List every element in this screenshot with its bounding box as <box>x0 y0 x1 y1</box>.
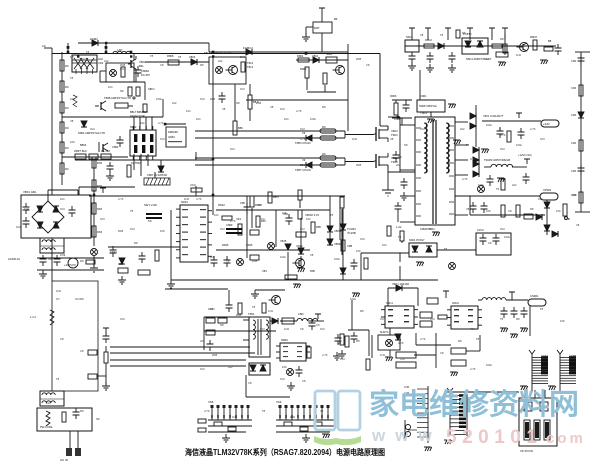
svg-text:10K: 10K <box>556 209 561 213</box>
svg-text:R86: R86 <box>310 269 315 273</box>
svg-text:KA7552: KA7552 <box>131 161 141 165</box>
svg-text:ZD8: ZD8 <box>118 229 124 233</box>
svg-text:100u: 100u <box>478 183 484 187</box>
svg-text:100u: 100u <box>486 123 492 127</box>
svg-text:B#: B# <box>334 17 338 21</box>
svg-text:222: 222 <box>104 59 109 63</box>
svg-text:222: 222 <box>460 127 465 131</box>
svg-text:R9: R9 <box>65 167 69 171</box>
svg-text:R9: R9 <box>322 125 326 129</box>
svg-text:104: 104 <box>46 401 51 405</box>
svg-text:T8: T8 <box>226 259 230 263</box>
svg-text:V8: V8 <box>70 119 74 123</box>
svg-text:V8#L: V8#L <box>139 60 146 64</box>
svg-text:VZ802 3.3V: VZ802 3.3V <box>305 213 319 217</box>
svg-text:4.7K: 4.7K <box>158 121 164 125</box>
svg-text:222: 222 <box>228 365 233 369</box>
svg-text:ZD8: ZD8 <box>356 163 362 167</box>
svg-text:222: 222 <box>172 101 177 105</box>
svg-text:TCM#1: TCM#1 <box>347 227 356 231</box>
svg-text:AC: AC <box>42 44 46 48</box>
svg-text:SW1 V130: SW1 V130 <box>144 203 157 207</box>
svg-text:V9: V9 <box>302 158 306 162</box>
svg-text:T8L6: T8L6 <box>247 65 254 69</box>
svg-text:R1K: R1K <box>470 327 475 331</box>
svg-text:R1K: R1K <box>120 67 125 71</box>
svg-text:R8: R8 <box>530 207 534 211</box>
svg-text:222: 222 <box>218 59 223 63</box>
svg-text:4.7K: 4.7K <box>462 177 468 181</box>
svg-text:R846: R846 <box>222 243 229 247</box>
svg-text:C8: C8 <box>508 209 512 213</box>
svg-text:R8: R8 <box>80 297 84 301</box>
svg-text:ZD8: ZD8 <box>236 313 242 317</box>
svg-text:C8: C8 <box>316 323 320 327</box>
svg-text:R8: R8 <box>500 37 504 41</box>
svg-text:C96: C96 <box>571 113 576 117</box>
svg-text:FGM2: FGM2 <box>90 37 98 41</box>
svg-text:T8: T8 <box>258 203 262 207</box>
svg-text:N8: N8 <box>96 417 100 421</box>
svg-text:C8: C8 <box>488 241 492 245</box>
svg-text:ZD8: ZD8 <box>356 57 362 61</box>
svg-text:10K: 10K <box>282 211 287 215</box>
svg-text:R1K: R1K <box>200 97 205 101</box>
svg-text:B8LT B#M/BLY: B8LT B#M/BLY <box>130 110 148 114</box>
svg-text:C9#1: C9#1 <box>420 94 427 98</box>
svg-text:T#B3 CHAIN: T#B3 CHAIN <box>295 141 311 145</box>
svg-text:R83: R83 <box>97 161 102 165</box>
svg-text:R1K: R1K <box>300 127 305 131</box>
svg-text:R808: R808 <box>167 54 174 58</box>
svg-text:T8#B AMPFSTGLCTD: T8#B AMPFSTGLCTD <box>104 96 131 100</box>
svg-text:222: 222 <box>140 121 145 125</box>
svg-text:V9: V9 <box>302 131 306 135</box>
svg-text:R1K: R1K <box>200 367 205 371</box>
svg-text:4.7K: 4.7K <box>420 337 426 341</box>
svg-text:R8: R8 <box>360 309 364 313</box>
svg-text:T8: T8 <box>262 409 266 413</box>
svg-text:N860: N860 <box>281 338 288 342</box>
svg-text:104: 104 <box>306 217 311 221</box>
svg-text:V8: V8 <box>420 33 424 37</box>
svg-text:N802: N802 <box>130 125 137 129</box>
svg-text:C8: C8 <box>160 63 164 67</box>
svg-text:T8L6: T8L6 <box>247 61 254 65</box>
svg-text:+12V(1.5A): +12V(1.5A) <box>518 153 532 157</box>
svg-text:R906: R906 <box>390 94 397 98</box>
svg-text:R801: R801 <box>297 54 304 58</box>
svg-text:R1K: R1K <box>380 317 385 321</box>
svg-text:+297V(5): +297V(5) <box>64 263 76 267</box>
svg-text:T8: T8 <box>330 213 334 217</box>
svg-text:www: www <box>371 426 442 445</box>
svg-text:T8: T8 <box>130 209 134 213</box>
svg-text:104: 104 <box>284 117 289 121</box>
svg-text:B8#4: B8#4 <box>80 143 87 147</box>
svg-text:C#B: C#B <box>347 244 352 248</box>
svg-text:R842: R842 <box>218 203 225 207</box>
svg-text:R8: R8 <box>356 339 360 343</box>
svg-text:104: 104 <box>382 243 387 247</box>
svg-text:1N4: 1N4 <box>210 255 215 259</box>
svg-text:V8: V8 <box>390 137 394 141</box>
svg-text:R1K: R1K <box>340 357 345 361</box>
svg-text:ZD8: ZD8 <box>212 353 218 357</box>
svg-text:XP9#2: XP9#2 <box>543 188 552 192</box>
svg-text:R1K: R1K <box>80 57 85 61</box>
svg-text:PW-FUSE: PW-FUSE <box>40 425 53 429</box>
svg-text:R8: R8 <box>80 409 84 413</box>
svg-text:N9C2: N9C2 <box>452 301 459 305</box>
svg-text:R1K: R1K <box>90 127 95 131</box>
svg-text:R8C8: R8C8 <box>530 35 537 39</box>
svg-text:10K: 10K <box>282 365 287 369</box>
svg-text:ZD8: ZD8 <box>210 97 216 101</box>
svg-text:V8: V8 <box>320 409 324 413</box>
svg-text:T8: T8 <box>252 305 256 309</box>
svg-text:C8##: C8## <box>226 223 233 227</box>
svg-text:100u: 100u <box>350 297 356 301</box>
svg-text:R8: R8 <box>80 259 84 263</box>
svg-text:ZD8: ZD8 <box>120 63 126 67</box>
svg-text:10K: 10K <box>560 319 565 323</box>
svg-text:VB01 GBL: VB01 GBL <box>23 190 37 194</box>
svg-text:C85: C85 <box>240 201 245 205</box>
svg-text:V9C1 1N4148: V9C1 1N4148 <box>392 282 409 286</box>
svg-text:C8: C8 <box>60 337 64 341</box>
svg-text:LR2: LR2 <box>98 57 103 61</box>
svg-text:N8#4 AMPFSTGLCTD: N8#4 AMPFSTGLCTD <box>78 131 105 135</box>
svg-text:R9: R9 <box>65 146 69 150</box>
svg-text:T8: T8 <box>86 50 90 54</box>
svg-text:R1K: R1K <box>400 357 405 361</box>
svg-text:C8#7 #C12PF00: C8#7 #C12PF00 <box>147 173 168 177</box>
svg-text:104: 104 <box>60 197 65 201</box>
svg-text:C96: C96 <box>571 141 576 145</box>
svg-text:T904M GBSTOREGB: T904M GBSTOREGB <box>484 158 510 162</box>
svg-text:C846: C846 <box>246 243 253 247</box>
svg-text:100u: 100u <box>504 235 510 239</box>
svg-text:T901: T901 <box>420 111 427 115</box>
svg-text:1N4: 1N4 <box>352 137 357 141</box>
svg-text:C8: C8 <box>302 379 306 383</box>
svg-text:CN8B: CN8B <box>569 354 576 358</box>
svg-text:N8: N8 <box>48 257 52 261</box>
svg-text:L:2.2: L:2.2 <box>30 315 37 319</box>
svg-text:LAP: LAP <box>117 48 122 52</box>
svg-text:T8: T8 <box>444 247 448 251</box>
svg-text:104: 104 <box>16 225 21 229</box>
svg-text:CX2: CX2 <box>60 253 66 257</box>
svg-text:ACRFL01: ACRFL01 <box>8 257 20 261</box>
svg-text:CY: CY <box>56 297 60 301</box>
svg-text:100u: 100u <box>156 97 162 101</box>
svg-text:T8: T8 <box>540 307 544 311</box>
svg-text:FD-387: FD-387 <box>141 73 150 77</box>
svg-text:1N4: 1N4 <box>380 353 385 357</box>
svg-text:VZ1: VZ1 <box>236 217 242 221</box>
svg-text:XP-PCON: XP-PCON <box>520 449 533 453</box>
svg-text:4.7K: 4.7K <box>118 197 124 201</box>
svg-text:4.7K: 4.7K <box>500 133 506 137</box>
svg-text:100u: 100u <box>516 143 522 147</box>
svg-text:W8#T BLK: W8#T BLK <box>74 149 87 153</box>
svg-text:C8#8A: C8#8A <box>141 69 149 73</box>
svg-text:T8: T8 <box>56 377 60 381</box>
svg-text:T9D3: T9D3 <box>391 133 398 137</box>
svg-text:4.7K: 4.7K <box>204 409 210 413</box>
svg-text:R9: R9 <box>65 85 69 89</box>
svg-text:R8: R8 <box>134 241 138 245</box>
svg-text:T8: T8 <box>70 76 74 80</box>
svg-text:R1K: R1K <box>280 377 285 381</box>
svg-text:C8: C8 <box>248 381 252 385</box>
svg-text:1N4: 1N4 <box>56 289 61 293</box>
svg-text:1N4: 1N4 <box>484 57 489 61</box>
svg-text:R8: R8 <box>200 63 204 67</box>
svg-text:V801: V801 <box>312 54 319 58</box>
svg-text:C96: C96 <box>571 86 576 90</box>
svg-text:CN9#1: CN9#1 <box>530 294 539 298</box>
svg-text:C96: C96 <box>571 59 576 63</box>
svg-text:ZD8: ZD8 <box>252 259 258 263</box>
svg-text:104: 104 <box>108 85 113 89</box>
svg-text:N8: N8 <box>120 89 124 93</box>
svg-text:家电维修资料网: 家电维修资料网 <box>369 387 579 421</box>
svg-text:B8: B8 <box>548 39 552 43</box>
svg-text:104: 104 <box>196 117 201 121</box>
svg-text:R83: R83 <box>97 184 102 188</box>
svg-text:AC IN: AC IN <box>60 458 68 462</box>
svg-text:N9C1: N9C1 <box>386 301 393 305</box>
svg-text:T8: T8 <box>466 143 470 147</box>
svg-text:VCC: VCC <box>190 183 196 187</box>
svg-text:N901 PC817: N901 PC817 <box>409 238 425 242</box>
svg-text:100u: 100u <box>486 363 492 367</box>
svg-text:100u: 100u <box>310 117 316 121</box>
svg-text:R1K: R1K <box>240 87 245 91</box>
svg-text:R1K: R1K <box>260 327 265 331</box>
svg-text:R1K: R1K <box>160 137 165 141</box>
svg-text:R1K: R1K <box>540 137 545 141</box>
svg-text:V8: V8 <box>222 107 226 111</box>
svg-text:4.7K: 4.7K <box>230 219 236 223</box>
svg-text:T8: T8 <box>500 317 504 321</box>
svg-text:N9#P GB/PGA: N9#P GB/PGA <box>419 104 437 108</box>
svg-text:N8: N8 <box>404 143 408 147</box>
svg-text:R8: R8 <box>458 339 462 343</box>
svg-text:R8: R8 <box>516 317 520 321</box>
svg-text:100u: 100u <box>280 255 286 259</box>
svg-text:R802: R802 <box>300 67 307 71</box>
svg-text:R85: R85 <box>316 225 321 229</box>
svg-text:R83: R83 <box>97 230 102 234</box>
svg-text:CN8A: CN8A <box>541 354 548 358</box>
svg-text:R1K: R1K <box>500 147 505 151</box>
svg-text:4.7K: 4.7K <box>296 109 302 113</box>
svg-text:R1K: R1K <box>500 227 505 231</box>
svg-text:B89: B89 <box>238 126 243 130</box>
svg-text:T8: T8 <box>178 55 182 59</box>
svg-text:V84: V84 <box>262 269 267 273</box>
svg-text:L-02: L-02 <box>396 225 402 229</box>
svg-text:R8: R8 <box>462 31 466 35</box>
svg-text:V803: V803 <box>189 55 196 59</box>
svg-text:ZD8: ZD8 <box>300 163 306 167</box>
svg-text:4.7K: 4.7K <box>322 353 328 357</box>
svg-text:C96: C96 <box>571 169 576 173</box>
svg-text:R1K: R1K <box>220 227 225 231</box>
svg-text:R1K: R1K <box>420 127 425 131</box>
svg-text:C8: C8 <box>80 349 84 353</box>
svg-text:10K: 10K <box>160 229 165 233</box>
svg-text:10K: 10K <box>356 249 361 253</box>
svg-text:1N4: 1N4 <box>290 415 295 419</box>
svg-text:ZD8: ZD8 <box>256 101 262 105</box>
svg-text:N8: N8 <box>148 87 152 91</box>
svg-text:/TL#3B: /TL#3B <box>347 231 356 235</box>
svg-text:R1K: R1K <box>230 147 235 151</box>
svg-text:C831: C831 <box>110 250 117 254</box>
svg-text:100u: 100u <box>334 257 340 261</box>
svg-text:XS8: XS8 <box>208 400 214 404</box>
svg-text:V832: V832 <box>296 244 303 248</box>
svg-text:10K: 10K <box>538 197 543 201</box>
svg-text:1N4: 1N4 <box>516 53 521 57</box>
svg-text:104: 104 <box>214 213 219 217</box>
svg-text:R9: R9 <box>65 126 69 130</box>
svg-text:R1K: R1K <box>120 317 125 321</box>
svg-text:4.7K: 4.7K <box>530 127 536 131</box>
svg-text:R8C2: R8C2 <box>425 38 432 42</box>
svg-text:G8#A: G8#A <box>168 135 175 139</box>
svg-text:FGMC2: FGMC2 <box>243 46 253 50</box>
svg-text:N8: N8 <box>70 55 74 59</box>
svg-text:R1K: R1K <box>430 227 435 231</box>
svg-text:222: 222 <box>200 339 205 343</box>
svg-text:C9Y2: C9Y2 <box>477 228 484 232</box>
svg-text:V9D3: V9D3 <box>391 129 398 133</box>
svg-text:C8: C8 <box>366 63 370 67</box>
svg-text:4.7K: 4.7K <box>398 341 404 345</box>
svg-text:R1K: R1K <box>360 237 365 241</box>
svg-text:ZD8: ZD8 <box>208 307 214 311</box>
svg-text:B#L: B#L <box>139 64 144 68</box>
svg-text:V8: V8 <box>466 207 470 211</box>
svg-text:海信液晶TLM32V78K系列（RSAG7.820.2094: 海信液晶TLM32V78K系列（RSAG7.820.2094）电源电路原理图 <box>185 447 385 457</box>
svg-text:1N4: 1N4 <box>240 55 245 59</box>
svg-text:R1K: R1K <box>430 317 435 321</box>
svg-text:222: 222 <box>512 183 517 187</box>
svg-text:R1K: R1K <box>130 227 135 231</box>
svg-text:V8: V8 <box>338 341 342 345</box>
svg-text:VD2: VD2 <box>98 61 104 65</box>
svg-text:222: 222 <box>396 163 401 167</box>
svg-text:10K: 10K <box>572 193 577 197</box>
svg-text:+24V: +24V <box>543 122 550 126</box>
svg-text:T861: T861 <box>248 312 255 316</box>
svg-text:1N4: 1N4 <box>284 327 289 331</box>
svg-text:XS9: XS9 <box>276 400 282 404</box>
svg-text:4.7K: 4.7K <box>300 137 306 141</box>
svg-text:104: 104 <box>186 109 191 113</box>
svg-text:4.7K: 4.7K <box>470 367 476 371</box>
svg-text:M#T: M#T <box>314 26 320 30</box>
svg-text:N801: N801 <box>326 52 333 56</box>
svg-text:N8: N8 <box>148 219 152 223</box>
svg-text:R9: R9 <box>322 152 326 156</box>
svg-text:T8: T8 <box>150 54 154 58</box>
svg-text:WL DM: WL DM <box>101 149 111 153</box>
svg-text:C9#6: C9#6 <box>394 117 401 121</box>
svg-text:R1K: R1K <box>280 107 285 111</box>
svg-text:LBD: LBD <box>298 312 304 316</box>
svg-text:T8: T8 <box>440 33 444 37</box>
svg-text:R8: R8 <box>322 105 326 109</box>
svg-text:C8: C8 <box>440 351 444 355</box>
svg-text:R1K: R1K <box>100 217 105 221</box>
svg-text:C8#4: C8#4 <box>112 145 119 149</box>
svg-text:T#BT CHAIN: T#BT CHAIN <box>295 168 311 172</box>
svg-text:C83: C83 <box>118 262 123 266</box>
svg-text:N8: N8 <box>220 323 224 327</box>
svg-text:4.7K: 4.7K <box>196 197 202 201</box>
svg-text:+B: +B <box>566 217 570 221</box>
svg-text:10K: 10K <box>70 140 75 144</box>
svg-text:6L8/7A: 6L8/7A <box>380 330 389 334</box>
svg-text:1N4: 1N4 <box>184 197 189 201</box>
svg-text:V845: V845 <box>280 239 287 243</box>
svg-text:T8: T8 <box>476 337 480 341</box>
svg-text:D#8A##: D#8A## <box>168 130 178 134</box>
svg-text:104: 104 <box>70 97 75 101</box>
svg-text:1N4: 1N4 <box>24 207 29 211</box>
svg-text:R1K: R1K <box>470 157 475 161</box>
svg-text:V8: V8 <box>270 105 274 109</box>
svg-text:520101: 520101 <box>446 427 542 448</box>
svg-text:N8: N8 <box>236 101 240 105</box>
svg-text:T8: T8 <box>398 235 402 239</box>
svg-text:V8: V8 <box>576 223 580 227</box>
svg-text:C8: C8 <box>300 327 304 331</box>
svg-text:R1K: R1K <box>320 327 325 331</box>
svg-text:1N4: 1N4 <box>268 309 273 313</box>
svg-text:R1K: R1K <box>300 227 305 231</box>
svg-text:T8L4 AMPFSTGLCTD: T8L4 AMPFSTGLCTD <box>204 51 231 55</box>
svg-text:R9: R9 <box>65 106 69 110</box>
svg-text:R83: R83 <box>97 207 102 211</box>
svg-text:R9: R9 <box>65 64 69 68</box>
svg-text:T8: T8 <box>496 187 500 191</box>
svg-text:V951 1N4148/7T: V951 1N4148/7T <box>483 114 504 118</box>
svg-text:R1K: R1K <box>60 207 65 211</box>
svg-text:R1K: R1K <box>260 217 265 221</box>
svg-text:com: com <box>546 430 586 447</box>
svg-text:V8: V8 <box>310 253 314 257</box>
svg-text:10K: 10K <box>486 209 491 213</box>
svg-text:1N4: 1N4 <box>232 415 237 419</box>
